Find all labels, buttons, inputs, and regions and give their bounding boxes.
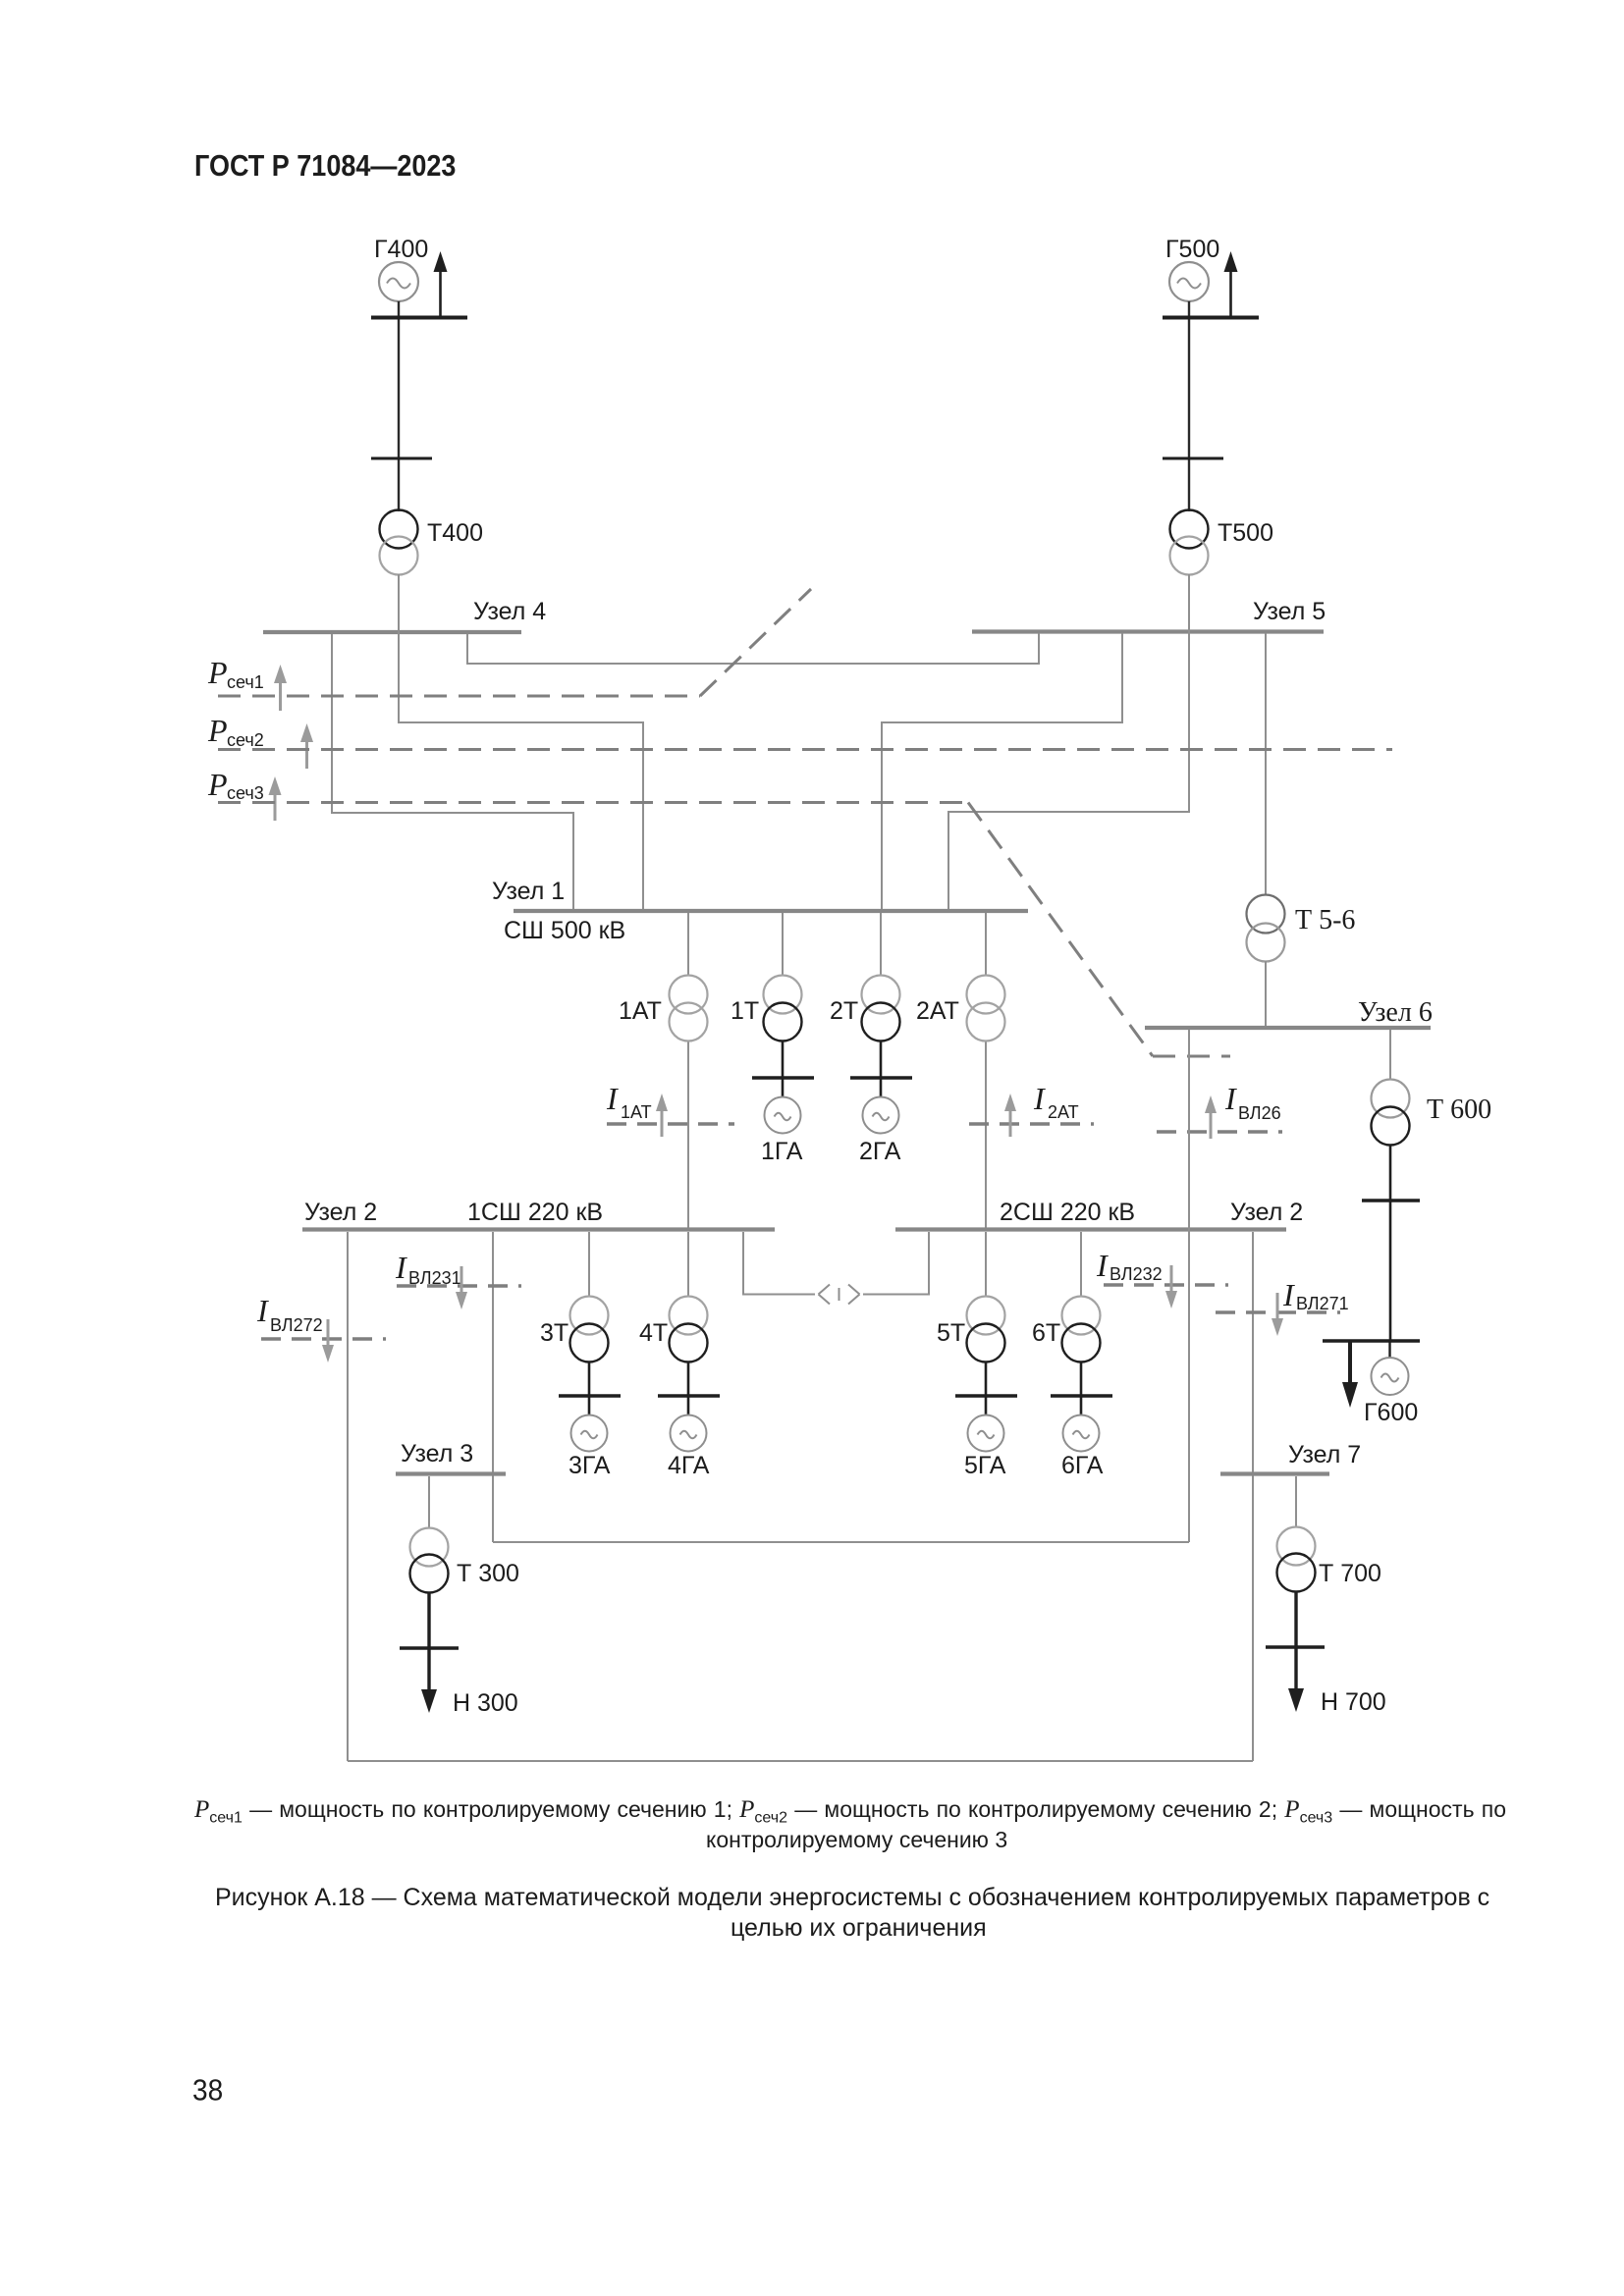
svg-text:4Т: 4Т [639,1319,668,1347]
label Узел 5 [1253,598,1326,625]
generator 5ГА [968,1415,1004,1452]
label Т 5-6 [1295,905,1355,935]
wire bottom link ВЛ27 [348,1760,1253,1762]
svg-text:I: I [1033,1081,1046,1116]
dashed measure line IВЛ272 [261,1337,386,1340]
generator Г500 [1169,262,1209,301]
svg-text:сеч3: сеч3 [227,783,264,803]
label Н 700 [1321,1688,1386,1716]
autotransformer 2АТ [967,976,1005,1041]
svg-text:I: I [395,1250,407,1285]
wire 6Т to 6ГА with disconnector [1051,1362,1112,1415]
generator bus Г400 [371,316,467,320]
label Т500 [1218,519,1273,547]
wire 1Т to 1ГА with disconnector [752,1041,814,1096]
svg-text:P: P [207,767,228,802]
svg-text:P: P [207,713,228,748]
wire Узел 4 to Узел 5 [467,633,1039,664]
wire 1СШ to 4Т [687,1232,689,1297]
wire Узел 5 to Т 5-6 [1265,633,1267,895]
arrow up at Г400 [434,251,448,317]
wire Узел 5 to Узел 1 [882,633,1122,910]
label IВЛ272 [256,1293,323,1335]
wire Узел 1 to 1АТ and down to 1СШ [687,913,689,1228]
generator Г500 label [1165,236,1219,263]
disconnector at Г500 [1163,457,1223,460]
svg-text:СШ 500 кВ: СШ 500 кВ [504,917,625,944]
dashed section line Pсеч3 [218,803,1230,1057]
generator 6ГА [1063,1415,1100,1452]
arrow up I2АТ [1004,1094,1016,1137]
wire Т400/Узел 4 down to Узел 1 [399,574,643,910]
wire Узел 1 to 2Т [880,913,882,976]
generator 4ГА [671,1415,707,1452]
arrow up IВЛ26 [1205,1095,1217,1139]
label Н 300 [453,1689,518,1717]
svg-text:Узел 5: Узел 5 [1253,598,1326,625]
label 6Т [1032,1319,1060,1347]
svg-text:Т 600: Т 600 [1427,1095,1491,1125]
label IВЛ271 [1282,1277,1349,1313]
svg-text:Узел 7: Узел 7 [1288,1441,1361,1468]
svg-text:2АТ: 2АТ [916,997,959,1025]
wire 2Т to 2ГА with disconnector [850,1041,912,1096]
label Т 700 [1319,1560,1381,1587]
load arrow Н 300 [421,1689,437,1713]
wire Узел 3 to Т 300 [428,1476,430,1528]
transformer Т 300 [410,1528,449,1593]
dashed measure line IВЛ271 [1216,1310,1340,1313]
arrow down IВЛ231 [456,1266,467,1309]
label IВЛ231 [395,1250,461,1288]
svg-text:I: I [1282,1277,1295,1312]
svg-text:сеч2: сеч2 [227,730,264,750]
svg-text:ВЛ272: ВЛ272 [270,1315,323,1335]
label 1СШ 220 кВ [467,1199,603,1226]
label Pсеч2 [207,713,264,750]
arrow Pсеч1 [274,665,287,711]
bus Узел 3 [396,1471,506,1475]
label 4ГА [668,1452,710,1479]
label 6ГА [1061,1452,1104,1479]
svg-text:2Т: 2Т [830,997,858,1025]
svg-text:Узел 3: Узел 3 [401,1440,473,1468]
label Pсеч1 [207,655,264,692]
svg-text:I: I [1096,1248,1109,1283]
wire Узел 4 to Узел 1 (left) [332,634,573,910]
label 3ГА [568,1452,611,1479]
figure caption line 2 [731,1914,987,1943]
arrow Pсеч2 [300,723,313,769]
svg-text:Узел 2: Узел 2 [304,1199,377,1226]
label I2АТ [1033,1081,1079,1122]
load arrow at Г600 bar [1342,1341,1358,1408]
label Т400 [427,519,483,547]
svg-text:Т500: Т500 [1218,519,1273,547]
label 1АТ [619,997,662,1025]
svg-text:2СШ 220 кВ: 2СШ 220 кВ [1000,1199,1135,1226]
generator 2ГА [863,1097,899,1134]
bus 2СШ 220 кВ [895,1227,1286,1231]
transformer 2Т [862,976,900,1041]
label 5ГА [964,1452,1006,1479]
svg-text:6Т: 6Т [1032,1319,1060,1347]
wire Т600 down with disconnector [1362,1146,1420,1341]
autotransformer 1АТ [670,976,708,1041]
svg-text:ВЛ26: ВЛ26 [1238,1103,1281,1123]
bus tie 1СШ to 2СШ with open breaker [743,1232,929,1305]
svg-text:Н 300: Н 300 [453,1689,518,1717]
label Узел 2 left [304,1199,377,1226]
transformer Т600 [1372,1080,1410,1146]
dashed measure line IВЛ232 [1104,1283,1228,1286]
wire 2СШ to 5Т [985,1232,987,1297]
label 1ГА [761,1138,803,1165]
svg-text:I: I [256,1293,269,1328]
transformer 6Т [1062,1297,1101,1362]
svg-text:4ГА: 4ГА [668,1452,710,1479]
wire ВЛ271 up to 2СШ through Узел 7 [1252,1232,1254,1761]
load arrow Н 700 [1288,1688,1304,1712]
bus 1СШ 220 кВ [302,1227,775,1231]
wire Т 300 down with disconnector [400,1593,459,1692]
svg-text:Узел 6: Узел 6 [1358,997,1433,1028]
wire Узел 6 to Т600 [1389,1030,1391,1080]
bus Узел 5 [972,629,1324,633]
wire Узел 7 to Т 700 [1295,1476,1297,1527]
wire 2СШ to 6Т [1080,1232,1082,1297]
wire Т 700 down with disconnector [1266,1592,1325,1691]
arrow up I1АТ [656,1094,668,1137]
generator bus Г500 [1163,316,1259,320]
wire generator Г500 to Т500 [1188,301,1190,511]
wire 5Т to 5ГА with disconnector [955,1362,1017,1415]
dashed section line Pсеч1 [218,589,811,696]
bus Узел 7 [1220,1471,1329,1475]
label Узел 3 [401,1440,473,1468]
wire ВЛ232/ВЛ26 at 2СШ to Узел 6 [1188,1030,1190,1542]
svg-text:6ГА: 6ГА [1061,1452,1104,1479]
transformer Т 5-6 [1247,895,1285,962]
page number [192,2073,223,2108]
transformer 3Т [570,1297,609,1362]
label Узел 1 [492,878,565,905]
transformer 4Т [670,1297,708,1362]
caption line 1 [194,1796,1506,1828]
label Т 600 [1427,1095,1491,1125]
svg-text:Г600: Г600 [1364,1399,1418,1426]
dashed measure line IВЛ26 [1157,1130,1282,1133]
svg-text:Н 700: Н 700 [1321,1688,1386,1716]
wire ВЛ272 from 1СШ down [347,1232,349,1761]
label 2СШ 220 кВ [1000,1199,1135,1226]
svg-text:1Т: 1Т [731,997,759,1025]
arrow Pсеч3 [269,776,282,821]
label 2АТ [916,997,959,1025]
label IВЛ26 [1224,1081,1281,1123]
generator Г400 label [374,236,428,263]
label 4Т [639,1319,668,1347]
arrow down IВЛ271 [1272,1293,1283,1336]
svg-text:Г500: Г500 [1165,236,1219,263]
wire Узел 1 to 1Т [782,913,784,976]
svg-text:Узел 1: Узел 1 [492,878,565,905]
header ГОСТ Р 71084—2023 [194,149,456,184]
bar at Г600 [1323,1339,1420,1343]
svg-text:Т 700: Т 700 [1319,1560,1381,1587]
dashed measure line I1АТ [607,1122,734,1125]
label СШ 500 кВ [504,917,625,944]
generator Г400 [379,262,418,301]
generator 3ГА [571,1415,608,1452]
wire bar to Г600 [1388,1341,1390,1359]
svg-text:Т 300: Т 300 [457,1560,519,1587]
arrow up at Г500 [1224,251,1238,317]
bus Узел 6 [1145,1026,1431,1030]
svg-text:Узел 2: Узел 2 [1230,1199,1303,1226]
label 5Т [937,1319,965,1347]
svg-text:3ГА: 3ГА [568,1452,611,1479]
transformer Т400 [380,510,418,575]
label Узел 2 right [1230,1199,1303,1226]
generator 1ГА [765,1097,801,1134]
label IВЛ232 [1096,1248,1163,1284]
label 1Т [731,997,759,1025]
wire 1СШ to 3Т [588,1232,590,1297]
dashed measure line I2АТ [969,1122,1094,1125]
transformer 1Т [764,976,802,1041]
label Узел 4 [473,598,546,625]
wire Узел 1 to 2АТ and down to 2СШ [985,913,987,1228]
label 2Т [830,997,858,1025]
svg-text:1ГА: 1ГА [761,1138,803,1165]
disconnector at Г400 [371,457,432,460]
svg-text:5ГА: 5ГА [964,1452,1006,1479]
caption line 2 [706,1827,1007,1853]
svg-text:I: I [1224,1081,1237,1116]
arrow down IВЛ272 [322,1319,334,1362]
svg-text:Г400: Г400 [374,236,428,263]
wire ВЛ231 from 1СШ through Узел 3 [492,1232,494,1542]
label Узел 7 [1288,1441,1361,1468]
wire Т500/Узел 5 down to Узел 1 [948,574,1189,910]
wire Т 5-6 to Узел 6 [1265,961,1267,1026]
wire 3Т to 3ГА with disconnector [559,1362,621,1415]
label Т 300 [457,1560,519,1587]
bus Узел 4 [263,630,521,634]
svg-text:Т 5-6: Т 5-6 [1295,905,1355,935]
label 3Т [540,1319,568,1347]
label Узел 6 [1358,997,1433,1028]
svg-text:ВЛ271: ВЛ271 [1296,1294,1349,1313]
svg-text:сеч1: сеч1 [227,672,264,692]
transformer 5Т [967,1297,1005,1362]
svg-text:2АТ: 2АТ [1048,1102,1079,1122]
svg-text:5Т: 5Т [937,1319,965,1347]
transformer Т 700 [1277,1527,1316,1592]
svg-text:Т400: Т400 [427,519,483,547]
transformer Т500 [1170,510,1209,575]
svg-text:1СШ 220 кВ: 1СШ 220 кВ [467,1199,603,1226]
svg-text:Узел 4: Узел 4 [473,598,546,625]
label 2ГА [859,1138,901,1165]
generator Г600 [1372,1358,1409,1395]
svg-text:1АТ: 1АТ [619,997,662,1025]
svg-text:2ГА: 2ГА [859,1138,901,1165]
arrow down IВЛ232 [1165,1265,1177,1308]
svg-text:I: I [606,1081,619,1116]
wire generator Г400 to Т400 [398,301,400,511]
wire bottom link ВЛ23 [493,1541,1189,1543]
svg-text:3Т: 3Т [540,1319,568,1347]
svg-text:P: P [207,655,228,690]
figure caption line 1 [215,1884,1489,1912]
dashed section line Pсеч2 [218,748,1392,751]
wire 4Т to 4ГА with disconnector [658,1362,720,1415]
svg-text:1АТ: 1АТ [621,1102,652,1122]
dashed measure line IВЛ231 [397,1284,521,1287]
bus Узел 1 СШ 500 кВ [514,909,1028,913]
label Г600 [1364,1399,1418,1426]
svg-text:ВЛ232: ВЛ232 [1110,1264,1163,1284]
label I1АТ [606,1081,652,1122]
label Pсеч3 [207,767,264,803]
